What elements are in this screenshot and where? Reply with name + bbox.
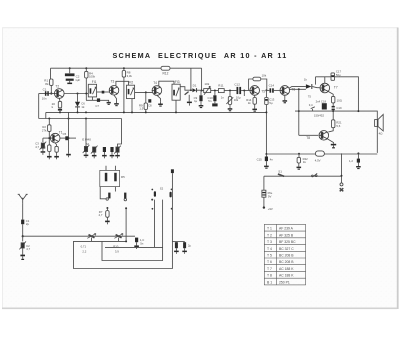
svg-text:T 7: T 7 (267, 267, 272, 271)
ground emitter T8 (327, 139, 333, 144)
capacitor C14 (266, 89, 269, 91)
resistor R7 (106, 207, 108, 209)
resistor R21 (332, 111, 334, 120)
capacitor C1 (45, 91, 47, 96)
capacitor C2 (69, 68, 71, 73)
svg-text:9V: 9V (268, 195, 272, 199)
svg-text:1,5: 1,5 (139, 107, 143, 111)
svg-text:T2: T2 (55, 85, 59, 89)
capacitor C13 (265, 89, 267, 91)
wire driver lines (289, 86, 306, 88)
resistor R9 (145, 92, 147, 103)
svg-text:5,6: 5,6 (336, 124, 340, 128)
capacitor AGC (185, 92, 189, 95)
resistor R12 (161, 66, 170, 70)
resistor R20 (328, 92, 333, 97)
svg-text:2x4 C18: 2x4 C18 (316, 99, 327, 103)
trimmer 3 (118, 119, 122, 147)
capacitor (103, 147, 106, 152)
battery Pile (262, 190, 266, 197)
wire middle loop (102, 200, 163, 261)
svg-text:C7: C7 (95, 104, 99, 108)
resistor R6 emitter T2 (58, 98, 61, 101)
IF transformer FI2 (127, 85, 135, 98)
wire collector T2 to FI1 (64, 93, 88, 95)
capacitor C19 (332, 103, 334, 106)
svg-text:E M40: E M40 (82, 137, 91, 141)
svg-text:27k: 27k (42, 128, 47, 132)
ground emitter T4 (157, 95, 161, 102)
diode D (77, 94, 79, 102)
svg-text:BC 327 C: BC 327 C (279, 247, 294, 251)
resistor R1 (50, 79, 53, 85)
trimmer 1 (85, 119, 87, 147)
wire top right rail (316, 77, 359, 111)
capacitor C5 (65, 136, 68, 140)
svg-text:BC 208 B: BC 208 B (279, 254, 294, 258)
capacitor C12 (237, 87, 239, 94)
svg-text:10k: 10k (262, 73, 267, 77)
wire left drop to R1 (50, 68, 53, 93)
svg-text:T 5: T 5 (267, 254, 272, 258)
wire detector line (180, 87, 192, 91)
resistor R3 (48, 145, 51, 152)
transistor T6 (280, 86, 290, 96)
capacitor (110, 147, 113, 152)
IF transformer FI1 (88, 84, 96, 97)
svg-text:3,3k: 3,3k (127, 74, 133, 78)
capacitor C7 (97, 98, 100, 102)
fuse / connector (315, 151, 324, 156)
svg-text:SCHEMA ELECTRIQUE AR 10 - AR: SCHEMA ELECTRIQUE AR 10 - AR 11 (112, 51, 287, 60)
capacitors beside loop (172, 241, 184, 243)
capacitor C17 (331, 73, 335, 80)
svg-text:AC 188 K: AC 188 K (279, 274, 294, 278)
wire T6 collector down (298, 89, 300, 135)
svg-text:AC 188 K: AC 188 K (279, 267, 294, 271)
resistor R4 (85, 68, 87, 100)
wire switch line (264, 175, 342, 177)
svg-text:100k: 100k (89, 75, 96, 79)
svg-text:4n: 4n (270, 158, 274, 162)
svg-text:8k: 8k (45, 82, 49, 86)
switch contact (312, 175, 314, 177)
wire collector T1 (60, 137, 76, 139)
svg-text:C8: C8 (148, 103, 152, 107)
svg-text:50μ: 50μ (336, 73, 341, 77)
svg-text:T 6: T 6 (267, 260, 272, 264)
wire coil taps (92, 238, 119, 242)
wire base T1 (43, 137, 51, 139)
wire collector T3 to FI2 (116, 81, 129, 86)
svg-text:T3: T3 (111, 80, 115, 84)
transistor T1 oscillator (50, 133, 60, 143)
svg-text:D1: D1 (193, 83, 197, 87)
node base T2 (50, 92, 52, 94)
svg-text:10k: 10k (204, 82, 209, 86)
svg-text:T 1: T 1 (267, 227, 272, 231)
svg-text:B 1: B 1 (267, 280, 272, 284)
svg-text:4,5V: 4,5V (315, 159, 321, 163)
wire second bus (38, 94, 40, 119)
wire bus under FI1 (86, 99, 109, 101)
svg-text:T 8: T 8 (267, 274, 272, 278)
capacitor C1 ant (21, 220, 24, 225)
capacitor C8 (148, 99, 151, 102)
transistor T8 (328, 128, 333, 132)
ground FI1 secondary (108, 100, 110, 102)
svg-text:C14: C14 (269, 84, 275, 88)
svg-text:S2: S2 (160, 187, 164, 191)
diode bias (306, 84, 312, 89)
svg-text:3,9: 3,9 (115, 249, 119, 253)
wire power bottom line (266, 112, 377, 154)
svg-text:BC 208 B: BC 208 B (279, 260, 294, 264)
svg-text:T5: T5 (261, 90, 265, 94)
capacitor C9 (200, 91, 202, 96)
resistor R2 (48, 119, 50, 125)
ground emitter T3 (114, 95, 117, 101)
svg-text:2μ: 2μ (26, 222, 30, 226)
trimmer C3 (42, 138, 44, 142)
resistor R11 (218, 89, 224, 93)
svg-text:C12: C12 (234, 83, 240, 87)
resistor R22 (298, 153, 300, 155)
table (264, 224, 305, 285)
svg-text:R12: R12 (163, 72, 169, 76)
svg-text:10Ω: 10Ω (337, 99, 342, 103)
svg-text:5n: 5n (208, 99, 212, 103)
switch S1 (278, 174, 284, 176)
svg-text:T8: T8 (306, 136, 310, 140)
wire coil to loop (125, 208, 127, 241)
jack column (341, 153, 343, 183)
svg-text:R5: R5 (121, 175, 125, 179)
coil terminals (100, 187, 106, 199)
resistor R13 feedback (249, 79, 253, 90)
svg-text:T 2: T 2 (267, 233, 272, 237)
svg-text:5n: 5n (140, 241, 144, 245)
svg-text:T 3: T 3 (267, 240, 272, 244)
svg-text:R11: R11 (218, 83, 224, 87)
svg-text:BF 325 BC: BF 325 BC (279, 240, 296, 244)
svg-text:1n: 1n (221, 95, 225, 99)
svg-text:2μ: 2μ (188, 243, 192, 247)
coupling coil 2 (116, 235, 122, 238)
svg-text:R10: R10 (113, 245, 119, 249)
svg-text:4,7: 4,7 (26, 247, 30, 251)
svg-text:5μ: 5μ (269, 101, 273, 105)
oscillator coil block (100, 170, 120, 186)
transistor T7 (320, 83, 330, 93)
antenna (18, 194, 28, 203)
svg-text:C19: C19 (336, 106, 342, 110)
ground emitter T6 (284, 95, 286, 98)
svg-text:FI3: FI3 (175, 80, 180, 84)
transistor T2 (55, 89, 65, 99)
resistor R8 (123, 68, 125, 112)
wire speaker feed line (295, 111, 377, 117)
diode D1 (192, 88, 196, 92)
wire T7 collector to top (324, 77, 326, 83)
capacitor C10 (214, 91, 216, 96)
svg-text:FI2: FI2 (129, 80, 134, 84)
svg-text:10n: 10n (42, 97, 47, 101)
wire base T2 (39, 93, 55, 95)
svg-text:4,7: 4,7 (99, 213, 103, 217)
wire rail stub (190, 68, 192, 90)
wire antenna coupling line (23, 235, 135, 237)
potentiometer P1 (202, 90, 204, 92)
wire collector T4 to FI3 (159, 81, 174, 86)
speaker HP (375, 120, 378, 127)
capacitor C15 (265, 153, 267, 155)
svg-text:FI1: FI1 (92, 80, 97, 84)
wire main bottom bus (46, 111, 267, 113)
svg-text:T4: T4 (153, 81, 157, 85)
svg-text:250 P1: 250 P1 (279, 280, 290, 284)
transistor T4 (152, 86, 162, 96)
svg-text:T7: T7 (334, 86, 338, 90)
potentiometer volume (229, 91, 231, 97)
svg-text:AF 325 B: AF 325 B (279, 233, 294, 237)
jack assembly (171, 169, 174, 173)
svg-text:+9V: +9V (268, 207, 273, 211)
svg-text:AF 239 A: AF 239 A (279, 227, 294, 231)
IF transformer FI3 (172, 84, 180, 100)
trimmer C2 ant (22, 236, 24, 241)
svg-text:1,2: 1,2 (349, 159, 353, 163)
resistor emitter T1 (55, 143, 56, 146)
svg-text:R3: R3 (42, 145, 46, 149)
wire long vertical from bus (68, 112, 70, 153)
wire inner loop (105, 200, 163, 248)
capacitor C18 (322, 103, 327, 109)
svg-text:4,7: 4,7 (35, 145, 39, 149)
svg-text:T 4: T 4 (267, 247, 272, 251)
transistor T3 (109, 86, 119, 96)
svg-text:C1: C1 (43, 88, 47, 92)
wire base T3 (97, 91, 110, 93)
svg-text:C5: C5 (63, 132, 67, 136)
svg-text:10μ: 10μ (236, 95, 241, 99)
capacitor C4 (135, 238, 138, 243)
wire speaker return (376, 117, 378, 153)
transistor T5 (250, 86, 260, 96)
svg-text:0,71: 0,71 (81, 245, 87, 249)
wire rail right drop (201, 68, 203, 90)
capacitor C20 (357, 152, 359, 154)
wire base T8 (299, 134, 318, 136)
resistor R14 emitter T5 (254, 95, 256, 97)
svg-text:75: 75 (308, 94, 312, 98)
coupling coil 1 (89, 235, 95, 238)
svg-text:2,2: 2,2 (82, 249, 86, 253)
wire base T4 (135, 91, 153, 93)
svg-text:1μ: 1μ (194, 99, 198, 103)
svg-text:150/452: 150/452 (314, 113, 325, 117)
wire outer loop (74, 173, 173, 268)
wire top supply rail (51, 67, 202, 69)
trimmer 2 (91, 146, 98, 154)
svg-text:1μF: 1μF (75, 78, 80, 82)
svg-text:C15: C15 (257, 158, 263, 162)
svg-text:3,4: 3,4 (309, 103, 313, 107)
svg-text:S1: S1 (278, 169, 282, 173)
